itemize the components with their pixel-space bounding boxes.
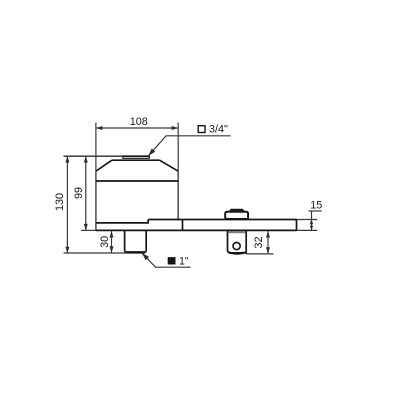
dim 99 bottom arrow	[84, 224, 88, 231]
dim 32 top arrow	[266, 231, 270, 238]
dim 130 line	[66, 156, 68, 253]
dim 15 up arrow	[310, 220, 313, 225]
dim 99 bottom extension line	[81, 229, 96, 231]
svg-text:108: 108	[130, 116, 148, 128]
clamp block outline	[228, 230, 247, 253]
dim 108 right arrow	[172, 126, 179, 130]
mounting plate top edge	[148, 219, 296, 221]
leader 3/4 line	[148, 136, 231, 156]
plate right end	[296, 220, 298, 231]
body left edge	[95, 171, 97, 230]
plate bottom extension (for 15 dim)	[297, 229, 318, 231]
dim 15 down arrow	[310, 226, 313, 231]
dim 130 top arrow	[65, 156, 69, 163]
clamp block gray top band	[228, 231, 245, 233]
clamp hole circle	[233, 242, 240, 249]
dim 108 right extension line	[177, 123, 179, 172]
dim 108 line	[96, 127, 178, 129]
dim 130/30 bottom extension line	[64, 252, 128, 254]
dim 108 left extension line	[95, 123, 97, 172]
valve body trapezoid top	[112, 159, 160, 161]
svg-text:32: 32	[253, 236, 265, 248]
svg-text:30: 30	[99, 236, 111, 248]
tailpiece thick bottom edge	[126, 251, 145, 253]
dim 32 bottom extension line	[246, 253, 273, 255]
trapezoid left slope	[96, 160, 112, 171]
cap top plate (knob)	[123, 155, 150, 157]
clamp block thick bottom	[229, 253, 245, 254]
body inner step line	[96, 220, 148, 223]
dim 32 line	[267, 231, 269, 254]
extension line top (cap top datum)	[64, 155, 124, 157]
trapezoid right slope	[160, 160, 179, 171]
threaded tailpiece cylinder	[125, 230, 147, 252]
dim 99 top arrow	[84, 156, 88, 163]
plate cap dark top	[228, 209, 246, 213]
plate bottom edge	[96, 229, 297, 231]
svg-text:99: 99	[73, 187, 85, 199]
plate divider seam	[182, 220, 184, 231]
cap bottom line	[96, 180, 178, 182]
label 1 inch filled square	[168, 257, 176, 264]
dim 15 line	[311, 211, 313, 231]
leader 1 inch line	[142, 253, 191, 267]
dim 15 text bar	[308, 210, 321, 212]
svg-text:3/4": 3/4"	[209, 124, 228, 136]
plate top extension (for 15 dim)	[297, 219, 318, 221]
svg-text:130: 130	[54, 193, 66, 211]
svg-text:15: 15	[310, 200, 322, 212]
svg-text:1": 1"	[179, 256, 189, 268]
body right edge	[177, 171, 179, 219]
dim 99 line	[85, 156, 87, 230]
label 3/4 square symbol	[198, 126, 205, 133]
dim 30 line	[111, 231, 113, 253]
dim 130 bottom arrow	[65, 247, 69, 254]
plate cap (connector head) base	[225, 212, 248, 219]
dim 32 bottom arrow	[266, 247, 270, 254]
dim 30 bottom arrow	[110, 246, 114, 253]
leader 1 inch arrow	[142, 253, 149, 260]
dim 108 left arrow	[96, 126, 103, 130]
leader 3/4 arrow	[148, 148, 155, 156]
dim 30 top arrow	[110, 231, 114, 238]
